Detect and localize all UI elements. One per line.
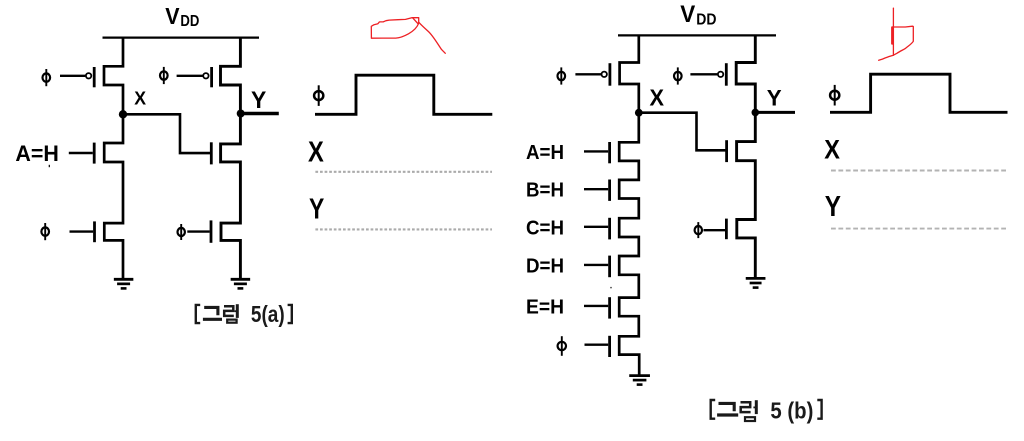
dashed baseline for X (b) xyxy=(831,170,1008,172)
red hand-drawn annotation "a" xyxy=(371,18,445,54)
wire: phi to PMOS gate (a, right) xyxy=(177,75,203,77)
wire: phi to evaluate NMOS gate (b, right) xyxy=(704,229,726,231)
NMOS D gate bar (b stack) xyxy=(608,256,611,278)
phi clock label (b stack) xyxy=(558,336,566,356)
svg-text:X: X xyxy=(134,87,146,108)
wire: node Y output stub (a) xyxy=(240,112,278,116)
wire: phi to evaluate NMOS gate (b stack) xyxy=(585,344,609,346)
svg-text:A=H: A=H xyxy=(15,141,59,166)
NMOS C gate bar (b stack) xyxy=(608,218,611,240)
dotted baseline for X (a) xyxy=(315,171,492,173)
wire: right branch rail of (b) with channel jogs xyxy=(736,35,755,278)
wire: B input to gate (b stack) xyxy=(584,188,608,190)
phi waveform label (a) xyxy=(314,85,323,106)
Hangul glyph RIM (caption a) xyxy=(224,304,237,323)
node X dot (a) xyxy=(119,110,127,118)
PMOS precharge transistor bubble (a, right) xyxy=(203,73,208,78)
NMOS output transistor gate bar (b, right, driven by X) xyxy=(725,140,728,162)
phi clock label (a NMOS right) xyxy=(178,224,185,240)
NMOS B gate bar (b stack) xyxy=(608,180,611,201)
phi waveform label (b) xyxy=(830,85,839,106)
svg-text:A=H: A=H xyxy=(526,141,564,164)
phi clock label (a PMOS left) xyxy=(43,69,51,86)
PMOS precharge transistor gate bar (a, right) xyxy=(210,67,213,87)
phi clock label (b PMOS left) xyxy=(558,67,566,84)
wire: node Y output stub (b) xyxy=(755,111,795,114)
NMOS evaluate (phi) gate bar (b stack) xyxy=(608,336,611,357)
phi clock label (a PMOS right) xyxy=(160,67,168,84)
wire: phi to PMOS gate (b, right) xyxy=(690,73,717,75)
NMOS E gate bar (b stack) xyxy=(608,297,611,318)
red hand-drawn annotation "b" xyxy=(879,8,914,60)
ground symbol (a, left) xyxy=(114,279,134,288)
phi clock pulse waveform (b) xyxy=(830,74,1008,112)
caption closing bracket (a) xyxy=(288,305,292,323)
wire: A input to gate (b stack) xyxy=(584,150,608,152)
figure caption [Geurim 5(a)] xyxy=(196,305,200,323)
svg-text:Y: Y xyxy=(309,194,324,226)
node Y dot (b) xyxy=(752,109,760,117)
VDD power rail (a) xyxy=(103,36,260,38)
NMOS A gate bar (a) xyxy=(93,143,96,164)
phi clock pulse waveform (a) xyxy=(315,75,492,114)
svg-text:X: X xyxy=(650,85,665,111)
stray dot artifact near E=H xyxy=(610,287,612,289)
PMOS precharge transistor gate bar (b, left) xyxy=(609,63,612,85)
svg-text:DD: DD xyxy=(180,13,199,30)
dashed baseline for Y (b) xyxy=(831,228,1008,230)
svg-text:V: V xyxy=(165,3,180,29)
dotted baseline for Y (a) xyxy=(315,228,492,230)
svg-text:Y: Y xyxy=(251,87,266,114)
stray tick mark under A=H xyxy=(48,165,50,167)
PMOS precharge transistor bubble (b, left) xyxy=(602,72,607,77)
phi clock label (b PMOS right) xyxy=(674,67,682,84)
svg-text:X: X xyxy=(308,136,324,168)
svg-text:D=H: D=H xyxy=(526,254,564,277)
wire: phi to evaluate NMOS gate (a, left) xyxy=(70,230,94,232)
wire: D input to gate (b stack) xyxy=(584,264,608,266)
svg-text:B=H: B=H xyxy=(526,179,564,202)
svg-text:X: X xyxy=(824,135,840,165)
caption closing bracket (b) xyxy=(817,400,821,419)
wire: C input to gate (b stack) xyxy=(584,226,608,228)
svg-text:5 (b): 5 (b) xyxy=(770,397,813,423)
wire: phi to evaluate NMOS gate (a, right) xyxy=(187,230,209,232)
PMOS precharge transistor bubble (a, left) xyxy=(86,73,91,78)
NMOS evaluate (phi) gate bar (a, left) xyxy=(93,221,96,242)
NMOS output transistor gate bar (a, right, driven by X) xyxy=(210,142,213,164)
wire: left branch rail of (a) with channel jogs xyxy=(104,38,123,280)
wire: node X to output NMOS gate (a) xyxy=(123,114,210,153)
svg-text:5(a): 5(a) xyxy=(251,301,285,327)
wire: right branch rail of (a) with channel jogs xyxy=(221,38,241,280)
svg-text:Y: Y xyxy=(825,190,841,222)
PMOS precharge transistor gate bar (b, right) xyxy=(725,63,728,85)
ground symbol (a, right) xyxy=(231,279,251,288)
Hangul glyph RIM (caption b) xyxy=(741,400,757,421)
wire: E input to gate (b stack) xyxy=(584,305,608,307)
svg-text:C=H: C=H xyxy=(526,216,564,239)
phi clock label (b NMOS right) xyxy=(695,222,702,238)
VDD power rail (b) xyxy=(618,34,776,36)
NMOS A gate bar (b stack) xyxy=(608,142,611,163)
wire: left branch rail of (b) with PMOS and NMOS-stack jogs xyxy=(619,35,639,375)
node Y dot (a) xyxy=(237,110,245,118)
svg-text:Y: Y xyxy=(767,85,782,110)
PMOS precharge transistor bubble (b, right) xyxy=(718,72,723,77)
node X dot (b) xyxy=(635,109,643,117)
svg-text:DD: DD xyxy=(696,12,716,29)
PMOS precharge transistor gate bar (a, left) xyxy=(93,67,96,87)
Hangul glyph GEU (caption a) xyxy=(203,307,222,319)
wire: A input to gate (a) xyxy=(69,152,93,154)
Hangul glyph GEU (caption b) xyxy=(717,403,738,415)
svg-text:V: V xyxy=(680,1,695,28)
wire: node X to output NMOS gate (b) xyxy=(639,113,726,151)
wire: phi to PMOS gate (a, left) xyxy=(60,75,85,77)
phi clock label (a NMOS left) xyxy=(41,223,49,240)
NMOS evaluate (phi) gate bar (a, right) xyxy=(210,220,213,242)
ground symbol (b, right) xyxy=(746,278,766,287)
ground symbol (b, left stack) xyxy=(629,376,650,385)
NMOS evaluate (phi) gate bar (b, right) xyxy=(725,219,728,240)
wire: phi to PMOS gate (b, left) xyxy=(575,73,601,75)
svg-text:E=H: E=H xyxy=(526,295,564,318)
figure caption [Geurim 5 (b)] xyxy=(711,400,716,419)
